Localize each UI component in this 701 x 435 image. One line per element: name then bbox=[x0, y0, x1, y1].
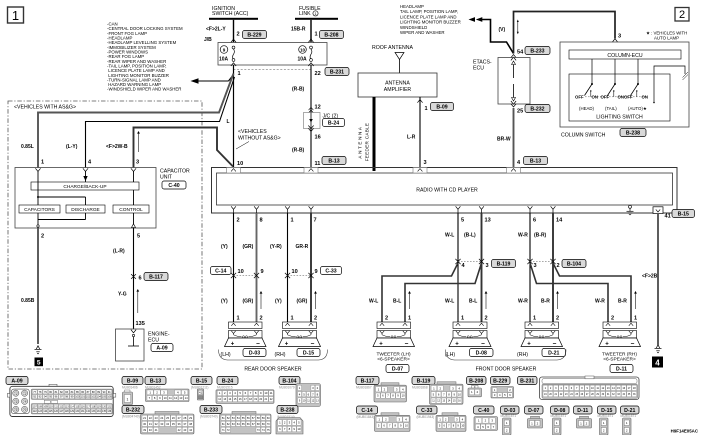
svg-text:+: + bbox=[455, 342, 459, 348]
wire W-R radio pin6 bbox=[529, 213, 531, 322]
bracket rear speakers bbox=[219, 350, 328, 361]
svg-text:+: + bbox=[605, 342, 609, 348]
svg-text:B-231: B-231 bbox=[330, 69, 344, 75]
ground 5 bbox=[35, 358, 44, 367]
svg-text:J/B: J/B bbox=[204, 37, 212, 43]
wire-label Y-G with direction arrow bbox=[118, 289, 139, 313]
connector-detail D-15 bbox=[598, 406, 617, 435]
wire Y-R radio pin1 to rear RH speaker bbox=[287, 213, 289, 322]
svg-text:D-07: D-07 bbox=[528, 408, 539, 414]
svg-text:41: 41 bbox=[665, 214, 671, 220]
svg-text:B-L: B-L bbox=[469, 299, 477, 305]
svg-text:1: 1 bbox=[12, 8, 19, 23]
wire Y radio pin2 to rear LH speaker bbox=[233, 213, 235, 322]
svg-text:B-15: B-15 bbox=[678, 211, 689, 217]
svg-text:25: 25 bbox=[517, 109, 523, 115]
svg-text:B-13: B-13 bbox=[150, 378, 161, 384]
svg-text:A-09: A-09 bbox=[156, 345, 167, 351]
svg-text:6: 6 bbox=[533, 218, 536, 224]
svg-text:Y-G: Y-G bbox=[118, 292, 127, 298]
svg-text:ON: ON bbox=[642, 94, 648, 99]
svg-text:2: 2 bbox=[385, 316, 388, 322]
svg-text:101: 101 bbox=[81, 396, 86, 399]
svg-text:2: 2 bbox=[237, 218, 240, 224]
svg-text:ROOF ANTENNA: ROOF ANTENNA bbox=[372, 45, 413, 51]
svg-text:MU801079: MU801079 bbox=[279, 386, 295, 390]
node radio-bottom-pin bbox=[231, 206, 236, 213]
wire-labels rear upper bbox=[221, 244, 309, 250]
svg-text:FRONT DOOR SPEAKER: FRONT DOOR SPEAKER bbox=[476, 367, 537, 373]
wire discharge output link bbox=[38, 213, 86, 220]
wire R-B J/C to radio pin11 bbox=[292, 129, 321, 168]
svg-text:MU801868: MU801868 bbox=[412, 386, 428, 390]
wire 2L-Y ignition to J/B fuse 9 bbox=[206, 20, 234, 42]
svg-text:1: 1 bbox=[461, 316, 464, 322]
svg-text:1: 1 bbox=[237, 316, 240, 322]
svg-text:+: + bbox=[379, 342, 383, 348]
svg-text:B-231: B-231 bbox=[520, 378, 534, 384]
node inline-connector 6 B-117 bbox=[131, 273, 168, 282]
node speaker pins rear bbox=[237, 316, 318, 322]
svg-text:(Y): (Y) bbox=[275, 299, 282, 305]
svg-text:W-L: W-L bbox=[445, 299, 454, 305]
svg-text:2: 2 bbox=[557, 263, 560, 269]
svg-text:B-117: B-117 bbox=[149, 274, 163, 280]
svg-text:2: 2 bbox=[556, 316, 559, 322]
svg-text:54: 54 bbox=[517, 50, 524, 56]
node label tweeter RH bbox=[602, 352, 637, 363]
svg-text:D-08: D-08 bbox=[554, 408, 565, 414]
svg-text:9: 9 bbox=[315, 269, 318, 275]
wire arrow-to-list-1 bbox=[191, 75, 234, 84]
node radio-bottom-pin bbox=[254, 206, 259, 213]
connector-detail C-33 bbox=[417, 406, 467, 432]
svg-text:100: 100 bbox=[75, 396, 80, 399]
svg-text:103: 103 bbox=[91, 396, 96, 399]
svg-text:B-233: B-233 bbox=[530, 48, 544, 54]
svg-text:MU801515: MU801515 bbox=[217, 386, 233, 390]
svg-text:ANTENNA: ANTENNA bbox=[385, 81, 410, 87]
svg-text:14: 14 bbox=[556, 218, 563, 224]
wire L-R capacitor pin5 to B-117 bbox=[113, 228, 134, 329]
svg-text:4: 4 bbox=[655, 359, 660, 368]
svg-text:C-14: C-14 bbox=[215, 268, 226, 274]
svg-text:10: 10 bbox=[405, 424, 408, 428]
svg-text:1: 1 bbox=[425, 106, 428, 112]
node FUSIBLE-LINK-1 bbox=[295, 6, 338, 20]
svg-text:D-08: D-08 bbox=[476, 350, 487, 356]
svg-text:13: 13 bbox=[485, 218, 491, 224]
svg-text:12: 12 bbox=[174, 396, 177, 400]
svg-text:(MU801843): (MU801843) bbox=[357, 415, 375, 419]
wire 0.85L branch to capacitor pin1 bbox=[38, 74, 234, 168]
svg-text:(V): (V) bbox=[499, 27, 506, 33]
radio RADIO-WITH-CD-PLAYER box bbox=[212, 168, 678, 214]
svg-text:B-119: B-119 bbox=[417, 378, 431, 384]
connector-detail C-14 bbox=[357, 406, 411, 432]
svg-text:<F>2W-B: <F>2W-B bbox=[106, 144, 128, 150]
connector-detail B-208 bbox=[467, 377, 487, 397]
svg-text:12: 12 bbox=[315, 105, 321, 111]
connector-detail B-24 bbox=[216, 377, 274, 404]
wire L-Y branch to capacitor pin4 bbox=[86, 77, 235, 168]
svg-text:(R-B): (R-B) bbox=[292, 148, 305, 154]
svg-text:<F>2L-Y: <F>2L-Y bbox=[206, 27, 226, 33]
svg-text:MU801867: MU801867 bbox=[356, 386, 372, 390]
svg-text:3: 3 bbox=[424, 160, 427, 166]
engine-ecu A-09 box bbox=[116, 329, 170, 361]
wire GR radio pin8 to rear LH speaker bbox=[256, 213, 258, 322]
node inline connector C-14 bbox=[211, 267, 264, 279]
column-switch box bbox=[560, 42, 689, 127]
speaker front-door-LH D-08 bbox=[449, 322, 491, 348]
svg-text:5: 5 bbox=[461, 218, 464, 224]
wire capacitors to pin2 bbox=[37, 213, 39, 228]
svg-text:COLUMN SWITCH: COLUMN SWITCH bbox=[561, 133, 606, 139]
svg-text:7: 7 bbox=[314, 218, 317, 224]
svg-text:(HEAD): (HEAD) bbox=[579, 106, 595, 111]
node page-1 bbox=[8, 7, 24, 23]
svg-text:AUTO LAMP: AUTO LAMP bbox=[654, 36, 679, 41]
svg-text:(MU804740): (MU804740) bbox=[122, 414, 140, 418]
svg-text:2: 2 bbox=[485, 316, 488, 322]
svg-text:(RH): (RH) bbox=[517, 352, 528, 358]
svg-text:LINK: LINK bbox=[299, 11, 311, 17]
svg-text:B-208: B-208 bbox=[324, 32, 338, 38]
svg-text:15B-R: 15B-R bbox=[291, 27, 306, 33]
svg-text:UNIT: UNIT bbox=[160, 175, 173, 181]
svg-text:D-11: D-11 bbox=[577, 408, 588, 414]
svg-text:11: 11 bbox=[270, 391, 273, 395]
wire pin1 internal bbox=[37, 172, 86, 206]
svg-text:<VEHICLES: <VEHICLES bbox=[238, 129, 267, 135]
svg-text:2: 2 bbox=[260, 316, 263, 322]
wire W-L branch to tweeter LH bbox=[382, 263, 458, 322]
svg-text:WITHOUT AS&G>: WITHOUT AS&G> bbox=[238, 136, 281, 142]
svg-text:SWITCH (ACC): SWITCH (ACC) bbox=[212, 11, 249, 17]
svg-text:W-L: W-L bbox=[445, 233, 454, 239]
svg-text:B-L: B-L bbox=[393, 299, 401, 305]
svg-text:5: 5 bbox=[137, 234, 140, 240]
connector-detail B-104 bbox=[279, 377, 321, 407]
svg-text:11: 11 bbox=[315, 161, 321, 167]
svg-text:3: 3 bbox=[136, 160, 139, 166]
switch tail bbox=[601, 59, 624, 111]
svg-text:ANTENNA: ANTENNA bbox=[358, 125, 363, 158]
connector-detail B-229 bbox=[491, 377, 514, 399]
svg-text:AMPLIFIER: AMPLIFIER bbox=[384, 87, 412, 93]
node pin25 connector B-232 bbox=[517, 105, 550, 115]
svg-text:10A: 10A bbox=[298, 57, 308, 63]
wire L from pin1 to radio pin10 bbox=[227, 65, 234, 168]
node vehicles-with-asg-region bbox=[8, 101, 202, 369]
svg-text:OFF: OFF bbox=[601, 94, 610, 99]
svg-text:1: 1 bbox=[533, 316, 536, 322]
svg-text:10: 10 bbox=[402, 394, 405, 398]
wire W-L radio pin5 bbox=[457, 213, 459, 322]
wire R-B fuse10 to J/C bbox=[292, 65, 321, 113]
svg-text:C-40: C-40 bbox=[478, 408, 489, 414]
svg-text:135: 135 bbox=[136, 321, 145, 327]
svg-text:1: 1 bbox=[41, 160, 44, 166]
svg-text:D-11: D-11 bbox=[616, 366, 627, 372]
wire-labels rear lower bbox=[221, 299, 308, 305]
wire-labels front upper bbox=[445, 233, 547, 239]
svg-text:B-13: B-13 bbox=[530, 158, 541, 164]
svg-text:10: 10 bbox=[292, 269, 298, 275]
connector-detail B-119 bbox=[412, 377, 463, 405]
svg-text:C-33: C-33 bbox=[325, 268, 336, 274]
svg-text:B-24: B-24 bbox=[328, 120, 339, 126]
svg-text:GR-R: GR-R bbox=[296, 244, 309, 250]
node IGNITION-SWITCH-ACC bbox=[209, 6, 258, 20]
svg-text:22: 22 bbox=[315, 71, 321, 77]
junction-block J/B bbox=[204, 37, 327, 65]
svg-text:−: − bbox=[481, 340, 485, 347]
connector-detail A-09 bbox=[6, 377, 28, 385]
svg-text:10: 10 bbox=[264, 391, 268, 395]
node pin3 column-ecu bbox=[612, 34, 621, 43]
direction arrows front bbox=[408, 291, 637, 309]
wire-labels front lower bbox=[369, 299, 627, 305]
svg-text:D-15: D-15 bbox=[303, 350, 314, 356]
node radio-pin10-entry bbox=[227, 168, 241, 174]
svg-text:10: 10 bbox=[297, 427, 301, 431]
svg-text:H9F14E05AC: H9F14E05AC bbox=[671, 429, 699, 434]
wire pin3 internal to control bbox=[133, 172, 135, 206]
wire arrow-to-list-2 and wire V elbow bbox=[469, 17, 514, 53]
antenna-amplifier box bbox=[358, 73, 437, 97]
svg-text:C-33: C-33 bbox=[421, 408, 432, 414]
wire B-L branch to tweeter LH bbox=[405, 263, 482, 322]
wire W-R branch to tweeter RH bbox=[530, 263, 608, 322]
node radio-bottom-pin bbox=[309, 206, 314, 213]
svg-text:BR-W: BR-W bbox=[497, 137, 511, 143]
svg-text:1: 1 bbox=[634, 316, 637, 322]
svg-text:9: 9 bbox=[261, 269, 264, 275]
svg-text:1: 1 bbox=[127, 398, 129, 402]
svg-text:B-119: B-119 bbox=[497, 261, 511, 267]
node inline connector B-119 bbox=[455, 259, 515, 269]
wire 2W-B capacitor pin3 to radio pin10 bbox=[134, 128, 234, 168]
svg-text:2: 2 bbox=[41, 234, 44, 240]
svg-text:2: 2 bbox=[314, 316, 317, 322]
svg-text:(AUTO)★: (AUTO)★ bbox=[628, 106, 647, 111]
wire pin4 internal with arrow bbox=[83, 172, 87, 183]
svg-text:A-09: A-09 bbox=[11, 378, 22, 384]
svg-text:C-40: C-40 bbox=[168, 183, 179, 189]
node pin22 connector B-231 bbox=[315, 68, 350, 77]
node radio-bottom-pin bbox=[479, 206, 484, 213]
svg-text:D-15: D-15 bbox=[601, 408, 612, 414]
svg-text:B-104: B-104 bbox=[567, 261, 581, 267]
svg-text:ON: ON bbox=[618, 94, 624, 99]
fuse 9 10A bbox=[219, 39, 236, 66]
svg-text:0.85B: 0.85B bbox=[21, 298, 35, 304]
svg-text:(LH): (LH) bbox=[221, 352, 231, 358]
svg-text:MU801671: MU801671 bbox=[621, 414, 637, 418]
charge/back-up block bbox=[31, 182, 139, 190]
svg-text:2: 2 bbox=[611, 316, 614, 322]
wire V headlamp feed bbox=[499, 12, 616, 54]
svg-text:<VEHICLES WITH AS&G>: <VEHICLES WITH AS&G> bbox=[14, 105, 76, 111]
wire antenna-feeder-cable bbox=[358, 97, 375, 171]
svg-text:(L-Y): (L-Y) bbox=[66, 144, 78, 150]
svg-text:(B-L): (B-L) bbox=[464, 233, 476, 239]
svg-text:LIGHTING SWITCH: LIGHTING SWITCH bbox=[596, 115, 643, 121]
speaker tweeter-RH D-11 bbox=[599, 322, 641, 348]
svg-text:B-229: B-229 bbox=[247, 32, 261, 38]
node radio-bottom-pin bbox=[456, 206, 461, 213]
svg-text:W-R: W-R bbox=[595, 299, 605, 305]
svg-text:6: 6 bbox=[139, 276, 142, 282]
svg-text:9: 9 bbox=[223, 48, 226, 53]
svg-text:1: 1 bbox=[408, 316, 411, 322]
connector-detail B-233 bbox=[200, 406, 271, 435]
node page-2 bbox=[675, 8, 689, 22]
wire B-L radio pin13 bbox=[481, 213, 483, 322]
svg-text:1: 1 bbox=[315, 32, 318, 38]
node radio-pin11-entry bbox=[304, 168, 318, 174]
wire control to pin5 bbox=[132, 213, 136, 228]
svg-text:+: + bbox=[527, 342, 531, 348]
svg-text:D-03: D-03 bbox=[504, 408, 515, 414]
svg-text:105: 105 bbox=[102, 396, 107, 399]
node system-list-left bbox=[107, 22, 183, 92]
node label tweeter LH bbox=[376, 352, 411, 363]
wire auto-lamp branch bbox=[653, 66, 688, 103]
node radio-bottom-pin bbox=[551, 206, 556, 213]
svg-text:ECU: ECU bbox=[473, 66, 484, 72]
svg-text:106: 106 bbox=[107, 396, 112, 399]
speaker front-door-RH D-21 bbox=[521, 322, 563, 348]
svg-text:OFF: OFF bbox=[575, 94, 584, 99]
capacitors block bbox=[19, 205, 60, 213]
node speaker pins front bbox=[385, 316, 637, 322]
connector-detail D-03 bbox=[501, 406, 520, 435]
svg-text:MU801406: MU801406 bbox=[122, 386, 138, 390]
discharge block bbox=[66, 205, 105, 213]
svg-text:D-07: D-07 bbox=[392, 366, 403, 372]
svg-text:14: 14 bbox=[185, 396, 188, 400]
svg-text:(MU801943): (MU801943) bbox=[417, 415, 435, 419]
svg-text:D-03: D-03 bbox=[249, 350, 260, 356]
svg-text:B-24: B-24 bbox=[222, 378, 233, 384]
svg-text:B-09: B-09 bbox=[436, 104, 447, 110]
svg-text:B-208: B-208 bbox=[469, 378, 483, 384]
connector-detail D-21 bbox=[621, 406, 640, 435]
wire B-R radio pin14 bbox=[552, 213, 554, 322]
control block bbox=[113, 205, 149, 213]
svg-text:RADIO WITH CD PLAYER: RADIO WITH CD PLAYER bbox=[416, 188, 478, 194]
svg-text:B-232: B-232 bbox=[126, 407, 140, 413]
speaker rear-door-RH D-15 bbox=[279, 322, 321, 348]
capacitor-unit C-40 box bbox=[15, 168, 190, 229]
svg-text:D-21: D-21 bbox=[548, 350, 559, 356]
node label rear RH D-15 bbox=[275, 349, 321, 359]
wire L-R amplifier to radio pin3 bbox=[417, 97, 427, 168]
svg-text:<6-SPEAKER>: <6-SPEAKER> bbox=[377, 357, 410, 363]
connector-detail B-15 bbox=[191, 377, 212, 401]
node column-switch label B-238 bbox=[561, 129, 646, 139]
svg-text:B-238: B-238 bbox=[626, 130, 640, 136]
svg-text:102: 102 bbox=[86, 396, 91, 399]
svg-text:10A: 10A bbox=[219, 57, 229, 63]
svg-text:B-238: B-238 bbox=[280, 407, 294, 413]
svg-text:B-233: B-233 bbox=[204, 407, 218, 413]
svg-text:10: 10 bbox=[458, 392, 461, 396]
wire 15B-R fusible link to J/B fuse 10 bbox=[291, 20, 311, 42]
svg-text:(GR): (GR) bbox=[297, 299, 308, 305]
svg-text:−: − bbox=[631, 340, 635, 347]
svg-text:0.85L: 0.85L bbox=[21, 144, 34, 150]
svg-text:B-104: B-104 bbox=[282, 378, 296, 384]
svg-text:(TAIL): (TAIL) bbox=[605, 106, 617, 111]
svg-text:OFF: OFF bbox=[624, 94, 633, 99]
svg-text:B-09: B-09 bbox=[127, 378, 138, 384]
svg-text:(MU803740): (MU803740) bbox=[200, 414, 218, 418]
direction arrow 2W-B bbox=[138, 133, 140, 152]
svg-text:ECU: ECU bbox=[148, 338, 159, 344]
wire 0.85B to ground 5 bbox=[21, 228, 38, 344]
svg-text:<F>2B: <F>2B bbox=[642, 274, 658, 280]
svg-text:−: − bbox=[405, 340, 409, 347]
svg-text:1: 1 bbox=[291, 218, 294, 224]
svg-text:X: X bbox=[50, 400, 52, 404]
wire B-R branch to tweeter RH bbox=[553, 263, 631, 322]
wire connector-link dashed J/B outputs bbox=[234, 69, 312, 71]
svg-text:(Y-R): (Y-R) bbox=[270, 244, 282, 250]
connector-detail B-09 bbox=[122, 377, 143, 405]
svg-text:B-13: B-13 bbox=[328, 158, 339, 164]
svg-text:W-R: W-R bbox=[518, 233, 528, 239]
antenna ROOF-ANTENNA bbox=[372, 45, 413, 73]
node radio-pin4-entry bbox=[507, 168, 521, 174]
node pin2 connector B-229 bbox=[237, 31, 267, 39]
svg-text:−: − bbox=[553, 340, 557, 347]
switch interlock dashed link bbox=[585, 96, 648, 98]
svg-text:+: + bbox=[285, 342, 289, 348]
svg-text:<6-SPEAKER>: <6-SPEAKER> bbox=[603, 357, 636, 363]
connector-detail B-117 bbox=[356, 377, 407, 403]
connector-detail C-40 bbox=[474, 406, 498, 431]
svg-text:(Y): (Y) bbox=[221, 299, 228, 305]
speaker rear-door-LH D-03 bbox=[225, 322, 267, 348]
svg-text:10: 10 bbox=[238, 269, 244, 275]
ground symbol right bbox=[655, 345, 662, 353]
svg-text:WIPER AND WASHER: WIPER AND WASHER bbox=[400, 30, 445, 35]
svg-text:5: 5 bbox=[37, 360, 41, 367]
node pin54 connector B-233 bbox=[517, 47, 550, 56]
node system-list-right bbox=[400, 4, 461, 35]
svg-text:CHARGE/BACK-UP: CHARGE/BACK-UP bbox=[63, 184, 106, 190]
svg-text:1: 1 bbox=[291, 316, 294, 322]
svg-text:W-L: W-L bbox=[369, 299, 378, 305]
svg-text:8: 8 bbox=[260, 218, 263, 224]
connector-detail B-238 bbox=[276, 406, 303, 435]
connector-detail D-11 bbox=[574, 406, 593, 428]
svg-text:ON: ON bbox=[592, 94, 598, 99]
node label rear LH D-03 bbox=[221, 349, 267, 359]
node pin4 connector B-13 bbox=[517, 157, 548, 167]
node radio-pin3-entry bbox=[413, 168, 427, 174]
speaker tweeter-LH D-07 bbox=[373, 322, 415, 348]
node vehicles-without-asg note bbox=[236, 129, 281, 149]
svg-text:W-R: W-R bbox=[518, 299, 528, 305]
svg-text:10: 10 bbox=[164, 396, 167, 400]
svg-text:104: 104 bbox=[97, 396, 102, 399]
svg-text:B-117: B-117 bbox=[361, 378, 375, 384]
